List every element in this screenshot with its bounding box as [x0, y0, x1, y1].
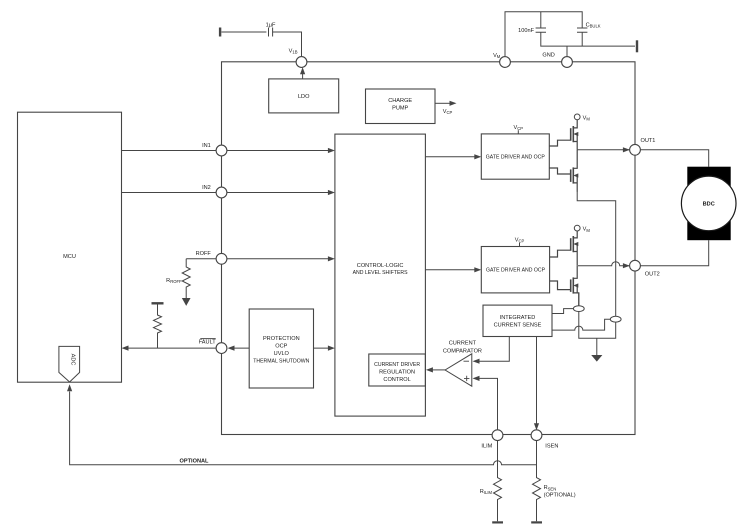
- arrowhead into OUT2 pin: [623, 263, 630, 268]
- arrowhead into comparator minus input: [473, 359, 480, 364]
- svg-text:CBULK: CBULK: [586, 22, 601, 28]
- wire control logic to gate driver 2: [425, 269, 477, 271]
- ground bar for bypass caps: [636, 40, 638, 52]
- svg-text:AND LEVEL SHIFTERS: AND LEVEL SHIFTERS: [353, 270, 409, 276]
- capacitor CBULK plates: [577, 28, 587, 32]
- svg-text:RILIM: RILIM: [480, 489, 493, 495]
- capacitor 1uF: [269, 28, 273, 37]
- wire OUT2 to motor: [640, 240, 708, 266]
- wire OUT1 to motor: [640, 150, 708, 167]
- wire CBULK lower lead: [581, 32, 583, 46]
- wire protection block to control logic: [314, 347, 332, 349]
- svg-text:OUT2: OUT2: [645, 271, 660, 277]
- svg-text:BDC: BDC: [703, 202, 715, 208]
- current driver regulation control block: [369, 354, 426, 386]
- IC device boundary box: [222, 62, 636, 435]
- VCP stub gate driver 2: [519, 243, 521, 247]
- pullup rail bar for FAULT resistor: [152, 302, 164, 304]
- svg-text:V1B: V1B: [289, 48, 298, 54]
- svg-text:LDO: LDO: [298, 94, 310, 100]
- svg-text:COMPARATOR: COMPARATOR: [443, 348, 482, 354]
- wire bridge1 output node to OUT1 pin: [577, 149, 629, 151]
- svg-text:VCP: VCP: [514, 125, 524, 131]
- svg-text:IN2: IN2: [202, 185, 211, 191]
- VCP stub gate driver 1: [517, 130, 519, 134]
- VM terminal circle bridge1: [574, 114, 580, 120]
- wire ROFF pin to control logic: [227, 258, 331, 260]
- wire IN2 to control logic: [227, 192, 331, 194]
- svg-text:MCU: MCU: [63, 254, 76, 260]
- pin circle OUT1: [630, 144, 641, 155]
- pin circle GND: [562, 57, 573, 68]
- svg-text:ADC: ADC: [70, 354, 76, 366]
- wire IN1 to control logic: [227, 150, 331, 152]
- svg-text:100nF: 100nF: [518, 28, 534, 34]
- arrowhead into ISEN pin: [534, 423, 539, 430]
- pin circle OUT2: [630, 260, 641, 271]
- wire MCU to IN1: [122, 150, 217, 152]
- capacitor 100nF plates: [536, 28, 546, 32]
- MCU block: [18, 112, 122, 382]
- svg-text:CONTROL: CONTROL: [383, 377, 410, 383]
- svg-text:ROFF: ROFF: [196, 251, 212, 257]
- wire comparator output to current driver regulation control: [431, 369, 446, 371]
- svg-text:(OPTIONAL): (OPTIONAL): [544, 493, 576, 499]
- transistor Q2 low-side bridge1: [549, 150, 578, 192]
- ground triangle under sense rail: [592, 356, 601, 361]
- control logic block: [335, 134, 426, 416]
- VM terminal circle bridge2: [574, 225, 580, 231]
- wire FAULT pin to MCU: [126, 347, 216, 349]
- svg-text:OUT1: OUT1: [641, 138, 656, 144]
- wire protection block to FAULT pin: [231, 347, 249, 349]
- wire ILIM pin to RILIM: [497, 441, 499, 470]
- arrowhead into comparator plus input: [473, 376, 480, 381]
- protection block: [249, 309, 313, 388]
- arrowhead comparator output into regulation control: [426, 367, 433, 372]
- wire RROFF node to ROFF pin: [186, 258, 216, 260]
- pin circle IN1: [216, 145, 227, 156]
- current sense element left: [573, 306, 584, 312]
- svg-text:CONTROL-LOGIC: CONTROL-LOGIC: [357, 263, 404, 269]
- resistor RROFF: [182, 259, 190, 299]
- arrowhead charge pump VCP: [450, 101, 457, 106]
- svg-text:GND: GND: [542, 53, 554, 59]
- wire charge pump VCP output: [435, 102, 450, 104]
- arrowhead protection into control logic: [328, 346, 335, 351]
- arrowhead into gate driver 2: [474, 267, 481, 272]
- wire current sense to ISEN pin: [536, 337, 538, 425]
- svg-text:REGULATION: REGULATION: [379, 370, 415, 376]
- svg-text:RROFF: RROFF: [166, 278, 182, 284]
- transistor Q1 high-side bridge1: [549, 120, 578, 150]
- wire MCU to IN2: [122, 192, 217, 194]
- pin circle ROFF: [216, 253, 227, 264]
- arrowhead into gate driver 1: [474, 154, 481, 159]
- wire ISEN pin to RSEN: [536, 441, 538, 470]
- pin circle VM: [500, 57, 511, 68]
- svg-text:UVLO: UVLO: [274, 351, 290, 357]
- svg-text:VM: VM: [583, 115, 591, 121]
- arrowhead into OUT1 pin: [623, 147, 630, 152]
- svg-text:CURRENT SENSE: CURRENT SENSE: [494, 322, 542, 328]
- svg-text:PUMP: PUMP: [392, 106, 408, 112]
- pin circle ILIM: [492, 430, 503, 441]
- wire ILIM pin to comparator plus input: [477, 378, 498, 429]
- charge pump block: [366, 89, 436, 124]
- svg-text:GATE DRIVER AND OCP: GATE DRIVER AND OCP: [486, 268, 546, 274]
- pin circle IN2: [216, 187, 227, 198]
- ground bar under RILIM: [492, 521, 503, 523]
- svg-text:1µF: 1µF: [266, 23, 276, 29]
- svg-text:IN1: IN1: [202, 143, 211, 149]
- pin circle V1B: [296, 57, 307, 68]
- wire LDO to V1B pin: [302, 71, 304, 79]
- svg-text:FAULT: FAULT: [199, 340, 217, 346]
- wire bridge2 output node to OUT2 pin (with hop over sense wire): [578, 262, 629, 266]
- wire 1uF cap to V1B pin: [273, 32, 302, 56]
- motor BDC: [681, 167, 736, 241]
- wire control logic to gate driver 1: [425, 156, 477, 158]
- resistor pullup on FAULT line: [154, 305, 162, 349]
- wire 100nF lower lead to GND rail: [541, 32, 635, 46]
- ADC block inside MCU: [59, 346, 80, 382]
- svg-text:VCP: VCP: [515, 238, 525, 244]
- ground arrow under RROFF: [183, 299, 190, 305]
- ground bar for 1uF cap: [219, 28, 221, 37]
- svg-text:ISEN: ISEN: [545, 443, 558, 449]
- svg-text:CURRENT: CURRENT: [449, 340, 477, 346]
- arrowhead IN2 into control logic: [328, 190, 335, 195]
- svg-text:OCP: OCP: [275, 344, 287, 350]
- svg-text:ILIM: ILIM: [481, 443, 492, 449]
- arrowhead ROFF into control logic: [328, 256, 335, 261]
- svg-text:VM: VM: [493, 53, 501, 59]
- wire bridge2 low-side source to left sense element: [578, 293, 580, 306]
- wire current sense to left ellipse: [552, 309, 573, 314]
- svg-text:RSEN: RSEN: [544, 485, 557, 491]
- svg-text:VCP: VCP: [443, 109, 453, 115]
- resistor RILIM: [494, 470, 502, 521]
- integrated current sense block: [483, 305, 552, 336]
- wire current sense to comparator minus input: [477, 337, 509, 362]
- svg-text:CHARGE: CHARGE: [388, 98, 412, 104]
- pin circle ISEN: [531, 430, 542, 441]
- pin circle FAULT: [216, 343, 227, 354]
- transistor Q4 low-side bridge2: [550, 266, 579, 306]
- svg-text:CURRENT DRIVER: CURRENT DRIVER: [374, 362, 420, 368]
- wire bridge1 low-side source to right sense element: [577, 191, 616, 316]
- wire 1uF cap ground lead: [222, 31, 267, 33]
- LDO block U-LDO: [269, 79, 339, 113]
- wire VM pin to bypass rail: [505, 12, 582, 56]
- svg-text:OPTIONAL: OPTIONAL: [180, 458, 209, 464]
- svg-text:INTEGRATED: INTEGRATED: [500, 315, 536, 321]
- wire 100nF upper lead: [540, 12, 542, 28]
- wire current sense to right ellipse (with hop over left sense wire): [552, 319, 610, 330]
- arrowhead LDO into V1B pin: [300, 67, 305, 74]
- arrowhead IN1 into control logic: [328, 148, 335, 153]
- current comparator U-CMP: [445, 354, 472, 386]
- wire rail to ground: [596, 338, 598, 355]
- current sense element right: [610, 316, 621, 322]
- arrowhead protection into FAULT pin: [228, 346, 235, 351]
- svg-text:VM: VM: [583, 227, 591, 233]
- gate driver 1 block: [481, 134, 549, 179]
- svg-text:GATE DRIVER AND OCP: GATE DRIVER AND OCP: [486, 155, 546, 161]
- svg-text:THERMAL SHUTDOWN: THERMAL SHUTDOWN: [253, 359, 309, 365]
- arrowhead OPTIONAL line into ADC: [67, 384, 72, 391]
- resistor RSEN: [533, 470, 541, 521]
- wire sense elements to common rail: [579, 311, 616, 338]
- arrowhead FAULT into MCU: [122, 346, 129, 351]
- transistor Q3 high-side bridge2: [550, 231, 579, 266]
- ground bar under RSEN: [531, 521, 542, 523]
- gate driver 2 block: [481, 247, 549, 293]
- svg-text:PROTECTION: PROTECTION: [263, 336, 300, 342]
- wire GND pin to rail: [566, 46, 568, 56]
- wire OPTIONAL ADC feedback line (hop over ILIM wire): [70, 392, 537, 465]
